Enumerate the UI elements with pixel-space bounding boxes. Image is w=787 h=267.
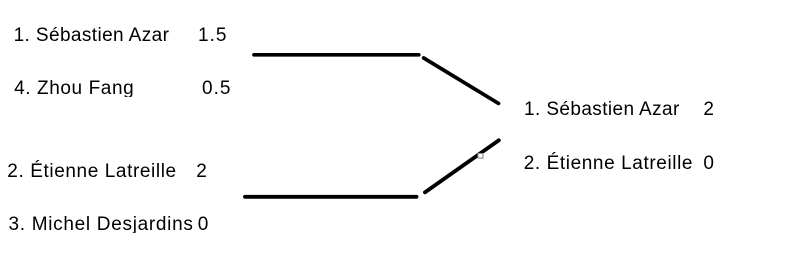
node: selection handle on bottom diagonal <box>478 154 483 159</box>
node: seed 4 left "4. Zhou Fang" (descender clipped) <box>14 79 134 97</box>
node: score 0 <box>198 215 209 234</box>
node: score 0.5 <box>202 79 231 98</box>
wire: bottom horizontal connector <box>245 195 417 199</box>
wire: top horizontal connector <box>254 53 419 57</box>
node: score 2 <box>196 162 207 181</box>
node: seed 2 left "2. Étienne Latreille" <box>7 162 176 181</box>
node: seed 1 left "1. Sébastien Azar" <box>14 26 170 45</box>
node: winner semifinal "1. Sébastien Azar" <box>524 100 680 119</box>
node: score 2 right <box>703 100 714 119</box>
node: score 0 right <box>703 154 714 173</box>
node: score 1.5 <box>198 26 227 45</box>
wire: bottom diagonal connector <box>425 140 499 192</box>
node: seed 3 left "3. Michel Desjardins" (descender clipped) <box>9 215 194 233</box>
node: finalist "2. Étienne Latreille" <box>524 154 693 173</box>
wire: top diagonal connector <box>424 58 499 103</box>
